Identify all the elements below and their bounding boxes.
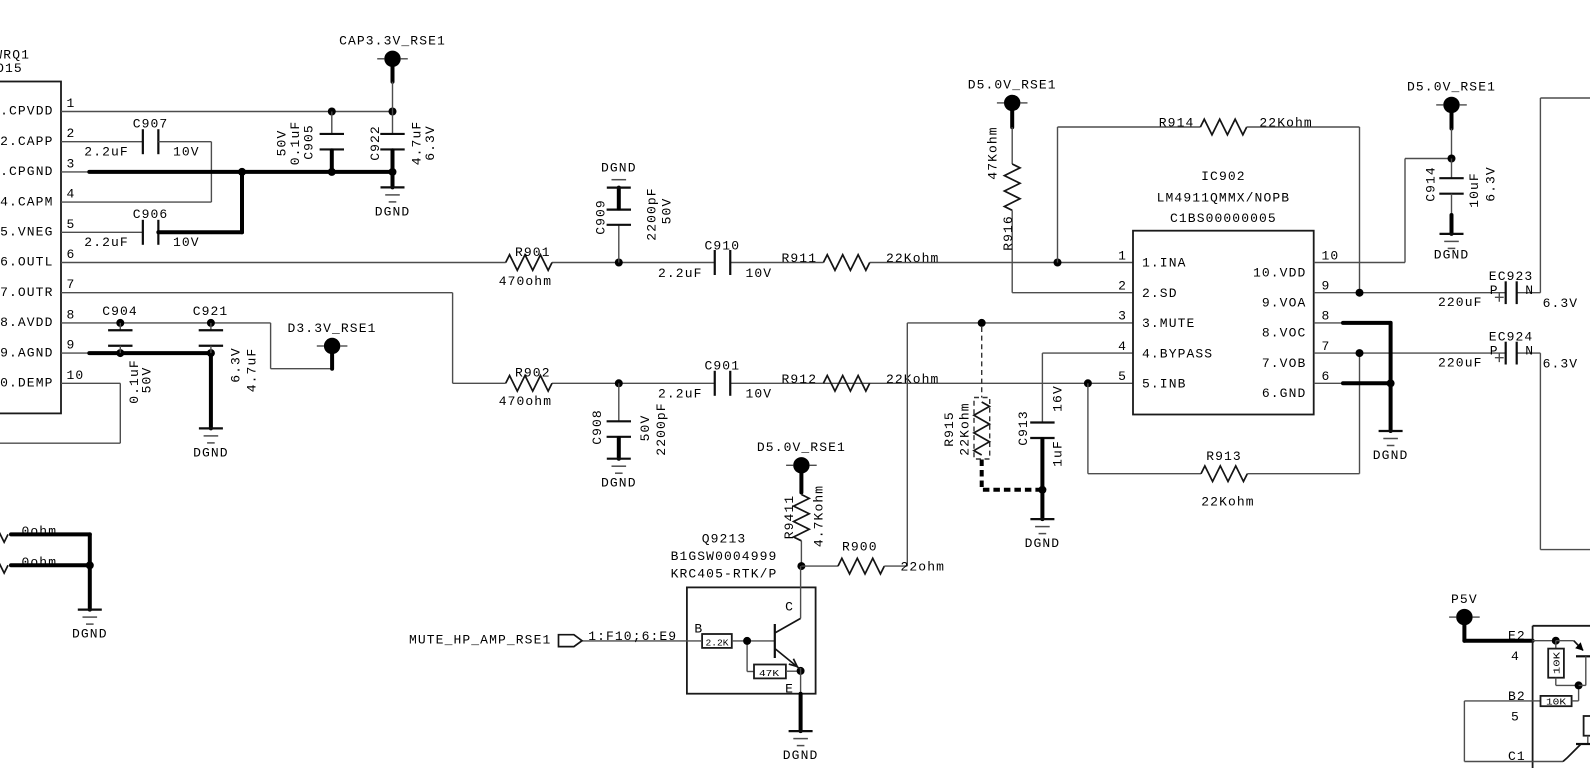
- junction MUTE/R915: [978, 319, 986, 327]
- svg-text:10: 10: [67, 368, 85, 383]
- svg-text:C904: C904: [102, 304, 138, 319]
- svg-text:N: N: [1525, 283, 1534, 298]
- svg-text:8.AVDD: 8.AVDD: [0, 315, 53, 330]
- resistor 0ohm (bottom, clipped at left): [0, 555, 90, 573]
- svg-text:C905: C905: [302, 124, 317, 160]
- ground DGND below Q9213 emitter: [783, 694, 819, 763]
- svg-text:Q9213: Q9213: [702, 531, 747, 546]
- capacitor C913 1uF 16V: [1016, 385, 1066, 519]
- op-amp U1: IC902 LM4911QMMX/NOPB: [1118, 169, 1339, 414]
- wire B2 to C1 external loop: [1464, 701, 1532, 762]
- svg-text:MUTE_HP_AMP_RSE1: MUTE_HP_AMP_RSE1: [409, 633, 551, 648]
- svg-text:B: B: [694, 621, 703, 636]
- svg-text:EC924: EC924: [1489, 329, 1534, 344]
- svg-text:1: 1: [67, 96, 76, 111]
- svg-text:B1GSW0004999: B1GSW0004999: [671, 549, 778, 564]
- svg-text:C: C: [785, 600, 794, 615]
- svg-text:KRC405-RTK/P: KRC405-RTK/P: [671, 566, 778, 581]
- svg-text:DGND: DGND: [783, 748, 819, 763]
- svg-text:5: 5: [1118, 369, 1127, 384]
- resistor R912 22Kohm: [782, 372, 940, 391]
- svg-text:1: 1: [1118, 248, 1127, 263]
- svg-text:C906: C906: [133, 207, 169, 222]
- svg-text:C1BS00000005: C1BS00000005: [1170, 211, 1277, 226]
- junction OUTL/R914: [1054, 259, 1062, 267]
- svg-text:2.2uF: 2.2uF: [84, 235, 129, 250]
- power symbol D5.0V_RSE1 (VDD): [1407, 80, 1496, 159]
- net CPGND: thick wire pin3 to C905/C922 bottoms: [61, 171, 393, 173]
- resistor 10K vertical (E-B): [1548, 641, 1578, 686]
- svg-text:R915: R915: [942, 411, 957, 447]
- resistor R9411 4.7Kohm (vertical): [782, 485, 827, 566]
- svg-text:6.3V: 6.3V: [1483, 166, 1498, 202]
- junction AVDD/C904: [116, 319, 124, 327]
- svg-text:2.2uF: 2.2uF: [84, 145, 129, 160]
- svg-text:9: 9: [67, 338, 76, 353]
- signal flag MUTE_HP_AMP_RSE1: [409, 629, 677, 648]
- svg-text:4.BYPASS: 4.BYPASS: [1142, 346, 1213, 361]
- ground DGND below C914: [1434, 234, 1470, 263]
- svg-text:7.OUTR: 7.OUTR: [0, 285, 53, 300]
- junction CPGND/C922: [389, 168, 397, 176]
- svg-text:3: 3: [1118, 309, 1127, 324]
- svg-text:6.3V: 6.3V: [1543, 356, 1579, 371]
- svg-text:5: 5: [67, 217, 76, 232]
- power symbol CAP3.3V_RSE1: [339, 34, 446, 112]
- svg-text:10uF: 10uF: [1467, 172, 1482, 208]
- svg-text:7.VOB: 7.VOB: [1262, 356, 1307, 371]
- power symbol D5.0V_RSE1 (R9411 pull-up): [757, 440, 846, 492]
- transistor symbol Q9213: [694, 566, 800, 696]
- svg-text:R916: R916: [1001, 215, 1016, 251]
- svg-text:8: 8: [67, 307, 76, 322]
- svg-text:IC902: IC902: [1201, 169, 1246, 184]
- svg-text:DGND: DGND: [375, 204, 411, 219]
- svg-text:16V: 16V: [1050, 385, 1065, 412]
- svg-text:DGND: DGND: [193, 445, 229, 460]
- svg-text:5.INB: 5.INB: [1142, 377, 1187, 392]
- svg-text:47Kohm: 47Kohm: [986, 126, 1001, 179]
- junction CPVDD/C905: [328, 108, 336, 116]
- svg-text:DGND: DGND: [1373, 448, 1409, 463]
- svg-text:P: P: [1490, 343, 1499, 358]
- svg-text:4.CAPM: 4.CAPM: [0, 194, 53, 209]
- svg-text:R913: R913: [1206, 449, 1242, 464]
- svg-text:P5V: P5V: [1451, 592, 1478, 607]
- svg-text:6.OUTL: 6.OUTL: [0, 255, 53, 270]
- svg-text:220uF: 220uF: [1438, 295, 1483, 310]
- svg-text:50V: 50V: [140, 367, 155, 394]
- svg-text:6.GND: 6.GND: [1262, 386, 1307, 401]
- capacitor EC924 220uF 6.3V (electrolytic): [1438, 329, 1578, 371]
- svg-text:DGND: DGND: [1434, 247, 1470, 262]
- svg-text:47K: 47K: [759, 669, 780, 679]
- ground DGND below C922: [375, 172, 411, 220]
- svg-text:3.CPGND: 3.CPGND: [0, 164, 54, 179]
- base-emitter resistor 47K inside Q9213: [754, 665, 801, 679]
- svg-text:0ohm: 0ohm: [22, 524, 58, 539]
- svg-text:22Kohm: 22Kohm: [886, 251, 939, 266]
- ground DGND below 0ohm pair: [72, 565, 108, 641]
- svg-text:22ohm: 22ohm: [901, 559, 946, 574]
- svg-text:1:F10;6:E9: 1:F10;6:E9: [588, 629, 677, 644]
- svg-text:3.MUTE: 3.MUTE: [1142, 316, 1195, 331]
- svg-text:10.VDD: 10.VDD: [1253, 265, 1306, 280]
- svg-text:C901: C901: [704, 359, 740, 374]
- capacitor C907 2.2uF 10V (flying cap pin2-pin4): [61, 116, 211, 202]
- svg-text:R9411: R9411: [782, 495, 797, 540]
- svg-text:10V: 10V: [746, 387, 773, 402]
- junction OUTR/C908: [615, 379, 623, 387]
- resistor 0ohm (top, clipped at left): [0, 524, 90, 565]
- capacitor C904 0.1uF 50V: [102, 304, 154, 404]
- resistor R916 47Kohm (vertical): [986, 126, 1020, 292]
- svg-text:4: 4: [1118, 339, 1127, 354]
- junction AGND/C904: [116, 349, 124, 357]
- wire base network: [582, 641, 775, 672]
- svg-text:D5.0V_RSE1: D5.0V_RSE1: [1407, 80, 1496, 95]
- pin E2 (4): [1508, 629, 1556, 664]
- svg-text:0ohm: 0ohm: [22, 555, 58, 570]
- svg-text:N: N: [1525, 343, 1534, 358]
- svg-text:C1: C1: [1508, 749, 1526, 764]
- svg-text:22Kohm: 22Kohm: [1259, 116, 1312, 131]
- junction emitter/47K: [797, 667, 805, 675]
- svg-text:10K: 10K: [1553, 651, 1563, 674]
- junction E2 node: [1552, 637, 1560, 645]
- power symbol D5.0V_RSE1 (R916 pull-up): [968, 78, 1057, 128]
- junction C913/R915: [1038, 486, 1046, 494]
- svg-text:2200pF: 2200pF: [645, 187, 660, 240]
- svg-text:C914: C914: [1424, 166, 1439, 202]
- svg-text:7: 7: [1322, 339, 1331, 354]
- svg-text:P: P: [1490, 283, 1499, 298]
- svg-text:2.SD: 2.SD: [1142, 286, 1178, 301]
- capacitor C906 2.2uF 10V (VNEG reservoir): [61, 172, 242, 250]
- svg-text:DGND: DGND: [601, 476, 637, 491]
- svg-text:22Kohm: 22Kohm: [1201, 495, 1254, 510]
- net VOB: IC pin7 through EC924 to right edge: [1314, 353, 1590, 549]
- junction OUTL/C909: [615, 259, 623, 267]
- svg-text:10K: 10K: [1546, 698, 1567, 708]
- junction VOB/R913: [1356, 349, 1364, 357]
- svg-text:22Kohm: 22Kohm: [886, 372, 939, 387]
- capacitor C905 0.1uF 50V: [275, 112, 345, 172]
- svg-text:50V: 50V: [660, 198, 675, 225]
- junction VOA/R914: [1356, 289, 1364, 297]
- capacitor C910 2.2uF 10V: [658, 238, 772, 281]
- svg-text:10V: 10V: [746, 266, 773, 281]
- svg-text:4.7Kohm: 4.7Kohm: [812, 485, 827, 547]
- svg-text:C913: C913: [1016, 410, 1031, 446]
- svg-text:9: 9: [1322, 279, 1331, 294]
- svg-text:C910: C910: [704, 238, 740, 253]
- capacitor C922 4.7uF 6.3V: [368, 112, 438, 172]
- svg-text:22Kohm: 22Kohm: [957, 402, 972, 455]
- ground DGND below C908: [601, 459, 637, 491]
- junction CPVDD/C922/CAP3.3V: [389, 108, 397, 116]
- svg-text:470ohm: 470ohm: [499, 394, 552, 409]
- capacitor C908 2200pF 50V (to DGND below): [590, 383, 669, 458]
- net AVDD: pin8 wire to D3.3V_RSE1: [61, 323, 332, 369]
- transistor Q (bottom, clipped): collector diag + base bar + 10K: [1563, 716, 1590, 762]
- net SD: wire to IC pin2: [1012, 292, 1133, 294]
- pin C1: [1508, 749, 1563, 764]
- svg-text:9.AGND: 9.AGND: [0, 345, 53, 360]
- svg-text:D3.3V_RSE1: D3.3V_RSE1: [287, 321, 376, 336]
- resistor R913 22Kohm (INB-VOB feedback): [1088, 353, 1360, 510]
- svg-text:10V: 10V: [173, 235, 200, 250]
- svg-text:7: 7: [67, 277, 76, 292]
- svg-text:10: 10: [1322, 248, 1340, 263]
- svg-text:50V: 50V: [638, 415, 653, 442]
- svg-text:D5.0V_RSE1: D5.0V_RSE1: [757, 440, 846, 455]
- capacitor EC923 220uF 6.3V (electrolytic): [1438, 269, 1578, 311]
- capacitor C914 10uF 6.3V: [1424, 159, 1499, 234]
- ground DGND below C913: [1025, 519, 1061, 551]
- net OUTL: pin6 wire through R901/C910/R911 to IC pin1: [61, 262, 1133, 264]
- net VDD: IC pin10 to D5.0V rail: [1314, 159, 1452, 263]
- svg-text:C908: C908: [590, 409, 605, 445]
- net OUTR: pin7 wire down and through R902/C901/R912 to IC pin5: [61, 293, 1133, 384]
- svg-text:E: E: [785, 682, 794, 697]
- svg-text:1.INA: 1.INA: [1142, 256, 1187, 271]
- svg-text:3: 3: [67, 156, 76, 171]
- capacitor C909 2200pF 50V (to DGND above): [594, 187, 675, 262]
- net VOC/GND: IC pins 8 and 6 tied to DGND (thick): [1314, 323, 1391, 431]
- svg-text:6.3V: 6.3V: [229, 347, 244, 383]
- resistor R902 470ohm: [499, 366, 552, 409]
- svg-text:10V: 10V: [173, 145, 200, 160]
- svg-text:CAP3.3V_RSE1: CAP3.3V_RSE1: [339, 34, 446, 49]
- svg-text:C907: C907: [133, 116, 169, 131]
- svg-text:DGND: DGND: [1025, 536, 1061, 551]
- svg-text:2.2K: 2.2K: [706, 639, 730, 649]
- svg-text:R902: R902: [515, 366, 551, 381]
- junction VDD/C914: [1448, 155, 1456, 163]
- svg-text:470ohm: 470ohm: [499, 274, 552, 289]
- resistor R911 22Kohm: [782, 251, 940, 270]
- ground DGND below IC: [1373, 431, 1409, 463]
- svg-text:2.2uF: 2.2uF: [658, 387, 703, 402]
- resistor R914 22Kohm (INA-VOA feedback): [1058, 116, 1360, 293]
- junction INB/R913: [1084, 379, 1092, 387]
- svg-text:EC923: EC923: [1489, 269, 1534, 284]
- svg-text:R901: R901: [515, 245, 551, 260]
- resistor R915 22Kohm (DNP, dashed): [942, 327, 1043, 490]
- svg-text:6: 6: [67, 247, 76, 262]
- svg-text:R914: R914: [1159, 116, 1195, 131]
- resistor 10K horizontal (base): [1541, 685, 1579, 707]
- svg-text:220uF: 220uF: [1438, 355, 1483, 370]
- svg-text:C921: C921: [193, 304, 229, 319]
- transistor Q2: Q9213 B1GSW0004999 KRC405-RTK/P (digital NPN): [671, 531, 816, 693]
- svg-text:2.CAPP: 2.CAPP: [0, 134, 53, 149]
- svg-text:DGND: DGND: [601, 161, 637, 176]
- junction base/47K: [743, 637, 751, 645]
- junction AGND/C921: [207, 349, 215, 357]
- svg-text:LM4911QMMX/NOPB: LM4911QMMX/NOPB: [1157, 191, 1291, 206]
- junction CPGND/C906 branch: [238, 168, 246, 176]
- power symbol D3.3V_RSE1: [287, 321, 376, 369]
- junction CPGND/C905: [328, 168, 336, 176]
- power symbol P5V: [1449, 592, 1533, 641]
- net AGND: thick wire pin9: [61, 353, 211, 428]
- svg-text:9.VOA: 9.VOA: [1262, 296, 1307, 311]
- svg-text:D5.0V_RSE1: D5.0V_RSE1: [968, 78, 1057, 93]
- svg-text:4: 4: [1511, 649, 1520, 664]
- transistor array box (clipped at right edge): [1533, 626, 1590, 768]
- pin B2 (5): [1508, 689, 1541, 725]
- base resistor 2.2K inside Q9213: [702, 634, 732, 649]
- net MUTE: wire from Q9213 collector riser to IC pin3: [907, 323, 1133, 566]
- transistor Q (top, clipped): emitter arrow + base bar: [1556, 641, 1590, 686]
- svg-text:6: 6: [1322, 369, 1331, 384]
- resistor R900 22ohm: [801, 540, 945, 575]
- junction AVDD/C921: [207, 319, 215, 327]
- svg-text:E2: E2: [1508, 629, 1526, 644]
- net DEMP: pin10 wire exiting left: [0, 383, 120, 443]
- ground DGND below C921/AGND: [193, 428, 229, 460]
- svg-text:1uF: 1uF: [1050, 440, 1065, 467]
- svg-text:R911: R911: [782, 251, 818, 266]
- svg-text:DGND: DGND: [72, 627, 108, 642]
- svg-text:1.CPVDD: 1.CPVDD: [0, 104, 54, 119]
- svg-text:2200pF: 2200pF: [654, 402, 669, 455]
- svg-text:6.3V: 6.3V: [1543, 296, 1579, 311]
- capacitor C921 4.7uF 6.3V: [193, 304, 260, 392]
- resistor R901 470ohm: [499, 245, 552, 289]
- svg-text:5: 5: [1511, 710, 1520, 725]
- svg-text:8: 8: [1322, 309, 1331, 324]
- svg-text:4: 4: [67, 187, 76, 202]
- ground DGND above C909 (inverted): [601, 161, 637, 188]
- junction R9411/R900/collector: [797, 562, 805, 570]
- svg-text:6.3V: 6.3V: [423, 125, 438, 161]
- net VOA: IC pin9 through EC923 to right edge: [1314, 98, 1590, 293]
- svg-text:2: 2: [67, 126, 76, 141]
- svg-text:10.DEMP: 10.DEMP: [0, 376, 54, 391]
- svg-text:4.7uF: 4.7uF: [245, 348, 260, 393]
- svg-text:QO15: QO15: [0, 61, 23, 76]
- net CPVDD: wire pin1 to CAP3.3V rail: [61, 111, 393, 113]
- connector PWRQ1 (audio DSP / codec, partially off-canvas): [0, 48, 84, 414]
- svg-text:C909: C909: [594, 199, 609, 235]
- svg-text:R900: R900: [842, 540, 878, 555]
- svg-text:2: 2: [1118, 279, 1127, 294]
- net BYPASS: IC pin4 wire down to C913: [1042, 353, 1133, 422]
- junction base node: [1575, 681, 1583, 689]
- svg-text:8.VOC: 8.VOC: [1262, 326, 1307, 341]
- svg-text:C922: C922: [368, 125, 383, 161]
- svg-text:R912: R912: [782, 372, 818, 387]
- capacitor C901 2.2uF 10V: [658, 359, 772, 402]
- svg-text:2.2uF: 2.2uF: [658, 266, 703, 281]
- junction 0ohm pair: [86, 561, 94, 569]
- junction VOC/GND: [1387, 379, 1395, 387]
- svg-text:5.VNEG: 5.VNEG: [0, 225, 53, 240]
